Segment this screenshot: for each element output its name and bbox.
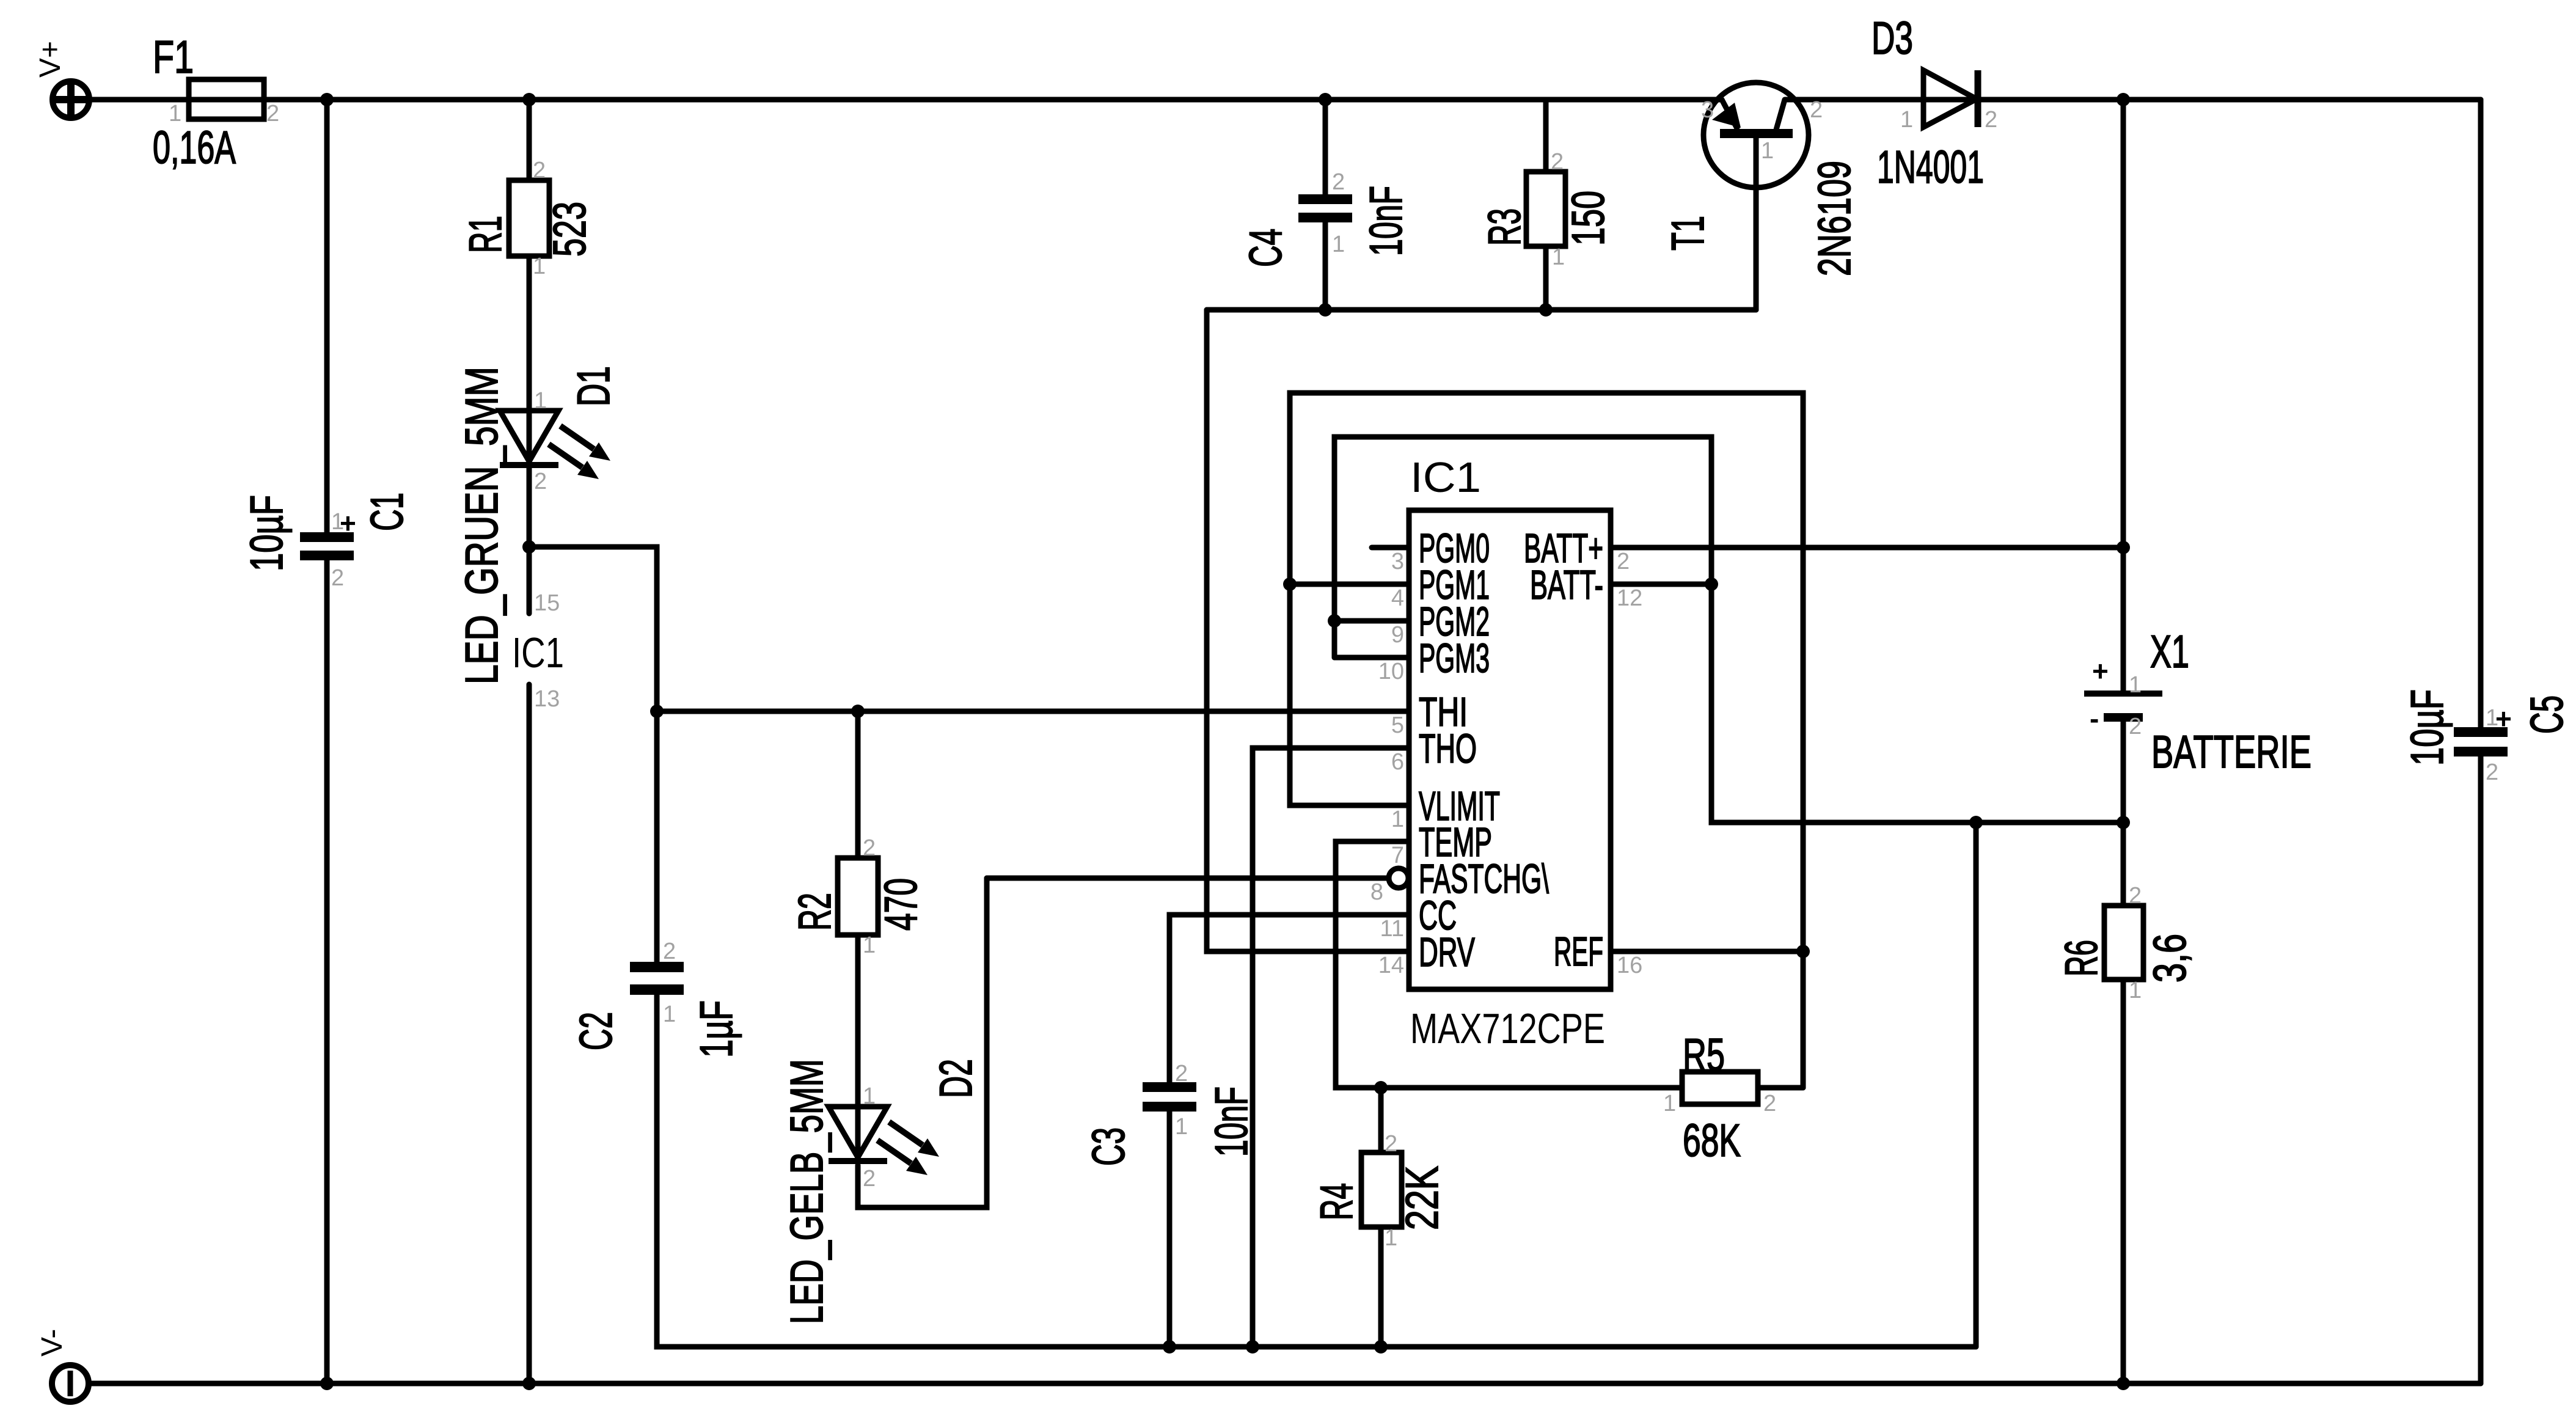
- node TEMP / R4: [1374, 1081, 1388, 1094]
- svg-text:470: 470: [875, 878, 926, 931]
- node BATT+ / battery: [2117, 541, 2130, 554]
- svg-text:PGM3: PGM3: [1419, 636, 1490, 681]
- svg-text:1: 1: [1385, 1225, 1397, 1251]
- node PGM1 / VLIMIT loop: [1283, 577, 1297, 591]
- node bus / THO: [1246, 1340, 1259, 1354]
- wire R2 top: [855, 711, 861, 858]
- svg-text:12: 12: [1617, 585, 1642, 611]
- svg-text:2: 2: [663, 939, 676, 964]
- svg-text:C4: C4: [1240, 229, 1291, 267]
- arrow head: [918, 1138, 939, 1157]
- capacitor plate: [300, 551, 354, 560]
- wire right edge upper: [2478, 100, 2484, 727]
- wire BATT- pin12: [1613, 582, 1711, 587]
- wire D2 cathode to FASTCHG riser: [858, 878, 987, 1207]
- wire battery minus to junction: [2121, 722, 2126, 822]
- symbol circle: [52, 1365, 89, 1402]
- wire PGM2 net: [1334, 618, 1409, 624]
- wire R3 top: [1543, 100, 1549, 172]
- svg-text:IC1: IC1: [1410, 453, 1481, 501]
- node BATT- / loop: [1705, 577, 1718, 591]
- node THI / R2: [851, 705, 865, 718]
- svg-text:523: 523: [544, 202, 595, 257]
- svg-text:1: 1: [169, 101, 181, 126]
- svg-text:2: 2: [1551, 149, 1564, 175]
- resistor R2: [789, 835, 926, 958]
- svg-text:11: 11: [1380, 916, 1404, 942]
- svg-text:3: 3: [1701, 97, 1714, 123]
- symbol circle: [53, 81, 89, 118]
- svg-text:10µF: 10µF: [241, 495, 292, 571]
- fuse F1: [153, 31, 279, 173]
- capacitor plate: [1143, 1082, 1196, 1092]
- svg-text:1: 1: [2129, 978, 2142, 1003]
- arrow head: [1712, 103, 1741, 128]
- node top rail / C1: [320, 93, 334, 106]
- svg-text:1: 1: [1900, 107, 1913, 133]
- node battery minus / R6: [2117, 816, 2130, 829]
- component body outline: [2104, 906, 2143, 980]
- svg-text:2: 2: [1617, 549, 1630, 574]
- node bus / R4: [1374, 1340, 1388, 1354]
- svg-text:1: 1: [1663, 1091, 1676, 1116]
- diode cathode bar: [1975, 70, 1981, 127]
- svg-text:7: 7: [1391, 843, 1404, 868]
- LED triangle: [829, 1107, 887, 1157]
- svg-text:4: 4: [1391, 585, 1404, 611]
- wire VLIMIT big loop: [1290, 393, 1803, 1088]
- collector lead: [1776, 100, 1785, 130]
- svg-text:1: 1: [534, 388, 547, 414]
- arrow shaft: [549, 444, 582, 467]
- wire DRV net riser: [1207, 310, 1409, 951]
- battery negative plate: [2104, 713, 2143, 722]
- capacitor plate: [300, 532, 354, 542]
- node BATT- bus riser: [1969, 816, 1983, 829]
- svg-text:10nF: 10nF: [1206, 1086, 1257, 1157]
- wire C1 branch lower: [324, 560, 330, 1383]
- wire TEMP net: [1336, 841, 1682, 1088]
- svg-text:C3: C3: [1083, 1127, 1134, 1166]
- svg-text:6: 6: [1391, 749, 1404, 775]
- transistor body circle: [1703, 82, 1809, 188]
- arrow shaft: [889, 1122, 923, 1145]
- svg-text:1: 1: [863, 1083, 876, 1109]
- node REF / loop: [1796, 945, 1810, 958]
- node base net / R3: [1539, 303, 1553, 317]
- svg-text:+: +: [2092, 655, 2109, 687]
- svg-text:15: 15: [534, 590, 560, 616]
- node PGM2 / PGM3 loop: [1328, 614, 1341, 628]
- resistor R6: [2055, 883, 2195, 1003]
- supply terminal V-: [36, 1329, 89, 1402]
- component body outline: [509, 180, 549, 256]
- LED D2: [781, 1059, 981, 1324]
- component body outline: [1361, 1152, 1402, 1227]
- wire IC1 pin13 to V- rail: [527, 684, 532, 1383]
- wire T1 base: [1754, 138, 1759, 310]
- svg-text:X1: X1: [2150, 626, 2189, 677]
- wire REF net: [1613, 949, 1803, 954]
- node top rail / battery riser: [2117, 93, 2130, 106]
- svg-text:R4: R4: [1311, 1183, 1362, 1220]
- svg-text:150: 150: [1562, 191, 1614, 246]
- svg-text:2: 2: [2486, 760, 2498, 785]
- svg-text:D1: D1: [568, 366, 619, 406]
- supply terminal V+: [34, 41, 89, 118]
- wire R4 top: [1378, 1088, 1384, 1152]
- capacitor C4: [1240, 169, 1411, 267]
- node THI / C2: [650, 705, 664, 718]
- svg-text:2: 2: [1332, 169, 1345, 195]
- svg-text:LED_GELB_5MM: LED_GELB_5MM: [781, 1059, 832, 1324]
- IC1 MAX712CPE box: [1370, 453, 1642, 1052]
- svg-text:LED_GRUEN_5MM: LED_GRUEN_5MM: [456, 367, 507, 684]
- svg-text:F1: F1: [153, 31, 194, 82]
- wire R2 bottom to D2: [855, 935, 861, 1160]
- wire THO net: [1253, 748, 1409, 1347]
- svg-text:2: 2: [863, 835, 876, 861]
- svg-text:3,6: 3,6: [2144, 934, 2195, 983]
- wire bus right riser: [1974, 822, 1979, 1347]
- svg-text:C5: C5: [2521, 695, 2572, 734]
- svg-text:2: 2: [331, 565, 344, 591]
- capacitor plate: [2454, 727, 2508, 737]
- wire PGM0 stub: [1372, 545, 1409, 551]
- wire right edge lower: [2478, 756, 2484, 1383]
- node V- rail / pin13: [522, 1377, 536, 1390]
- resistor R5: [1663, 1029, 1776, 1166]
- svg-text:2: 2: [1385, 1131, 1397, 1157]
- arrow head: [577, 461, 599, 479]
- svg-text:D2: D2: [930, 1059, 981, 1098]
- wire C4 bottom: [1323, 222, 1328, 310]
- component body outline: [1526, 172, 1565, 246]
- svg-text:10: 10: [1378, 659, 1404, 684]
- wire R4 bottom to bus: [1378, 1227, 1384, 1347]
- resistor R3: [1479, 149, 1614, 270]
- svg-text:1: 1: [1332, 232, 1345, 257]
- svg-text:IC1: IC1: [512, 629, 564, 676]
- svg-text:BATTERIE: BATTERIE: [2151, 726, 2311, 777]
- battery positive plate: [2084, 691, 2162, 697]
- svg-text:1: 1: [863, 932, 876, 958]
- node V- rail / C1: [320, 1377, 334, 1390]
- capacitor C5: [2401, 689, 2572, 785]
- capacitor plate: [630, 984, 684, 995]
- svg-text:2: 2: [1810, 97, 1823, 123]
- svg-text:+: +: [2495, 703, 2512, 734]
- svg-text:10µF: 10µF: [2401, 689, 2453, 766]
- capacitor plate: [1298, 213, 1352, 222]
- wire R1 top: [527, 100, 532, 180]
- wire R3 bottom: [1543, 246, 1549, 310]
- resistor R1: [459, 158, 595, 279]
- wire R6 bottom: [2121, 980, 2126, 1383]
- wire PGM3 loop over IC: [1334, 437, 2123, 822]
- wire THI net: [657, 709, 1409, 714]
- svg-text:1: 1: [1175, 1114, 1188, 1140]
- svg-text:1: 1: [1761, 138, 1774, 164]
- wire CC net to C3: [1169, 915, 1409, 1082]
- svg-text:DRV: DRV: [1419, 929, 1475, 975]
- node bus / C3: [1163, 1340, 1176, 1354]
- svg-text:68K: 68K: [1683, 1115, 1741, 1166]
- svg-text:T1: T1: [1662, 216, 1713, 251]
- svg-text:2: 2: [1763, 1091, 1776, 1116]
- capacitor plate: [630, 962, 684, 972]
- node base net / C4: [1319, 303, 1332, 317]
- svg-text:MAX712CPE: MAX712CPE: [1410, 1005, 1605, 1052]
- capacitor plate: [2454, 747, 2508, 756]
- wire BATT+ pin2: [1613, 545, 2123, 551]
- svg-text:2: 2: [534, 469, 547, 494]
- svg-text:+: +: [340, 507, 356, 539]
- wire R5 right to VLIMIT loop: [1758, 1085, 1803, 1091]
- svg-text:R2: R2: [789, 893, 840, 931]
- svg-text:5: 5: [1391, 712, 1404, 738]
- transistor T1: [1662, 82, 1860, 276]
- diode D3: [1872, 12, 1997, 192]
- svg-text:14: 14: [1378, 953, 1404, 978]
- base bar: [1720, 129, 1793, 138]
- svg-text:1: 1: [2129, 672, 2142, 698]
- arrow shaft: [877, 1140, 911, 1163]
- wire C1 branch upper: [324, 100, 330, 532]
- capacitor C3: [1083, 1061, 1257, 1166]
- svg-text:8: 8: [1370, 879, 1383, 905]
- svg-text:1: 1: [533, 254, 546, 279]
- wire C2 top: [654, 711, 660, 962]
- svg-text:2: 2: [863, 1166, 876, 1192]
- svg-text:0,16A: 0,16A: [153, 122, 236, 173]
- node top rail / C4: [1319, 93, 1332, 106]
- wire bottom V- rail: [89, 1381, 2481, 1387]
- LED D1: [456, 366, 619, 684]
- svg-text:R5: R5: [1683, 1029, 1725, 1080]
- wire top rail right segment: [1785, 97, 2481, 103]
- arrow head: [589, 442, 610, 461]
- wire FASTCHG net: [987, 876, 1388, 881]
- LED cathode bar: [829, 1158, 887, 1164]
- LED cathode bar: [500, 462, 558, 468]
- node V- rail / R6: [2117, 1377, 2130, 1390]
- svg-text:2: 2: [266, 101, 279, 126]
- component body outline: [189, 79, 264, 119]
- emitter lead: [1722, 100, 1738, 130]
- IC1 LED-driver pin stubs: [512, 590, 564, 712]
- capacitor C2: [570, 939, 742, 1058]
- wire battery riser: [2121, 100, 2126, 691]
- svg-text:THO: THO: [1419, 726, 1477, 772]
- svg-text:3: 3: [1391, 549, 1404, 574]
- svg-text:9: 9: [1391, 622, 1404, 648]
- wire C3 bottom to bus: [1167, 1112, 1173, 1347]
- svg-text:2: 2: [1175, 1061, 1188, 1086]
- svg-text:1: 1: [1391, 807, 1404, 832]
- LED triangle: [500, 411, 558, 461]
- component body outline: [838, 858, 878, 935]
- capacitor plate: [1143, 1102, 1196, 1112]
- svg-text:13: 13: [534, 686, 560, 712]
- node D1 cathode tap: [522, 540, 536, 554]
- diode triangle: [1923, 70, 1977, 127]
- svg-text:2: 2: [1985, 107, 1997, 133]
- capacitor C1: [241, 493, 412, 591]
- svg-text:22K: 22K: [1396, 1166, 1447, 1230]
- svg-text:BATT-: BATT-: [1530, 562, 1603, 608]
- svg-text:C1: C1: [361, 493, 412, 531]
- arrow head: [906, 1157, 928, 1175]
- svg-text:2N6109: 2N6109: [1809, 161, 1860, 276]
- capacitor plate: [1298, 194, 1352, 204]
- wire PGM1 net: [1290, 582, 1409, 587]
- svg-text:C2: C2: [570, 1012, 621, 1050]
- wire node D1 to C2 column: [529, 547, 657, 711]
- svg-text:16: 16: [1617, 953, 1642, 978]
- wire C4 top: [1323, 100, 1328, 194]
- svg-text:V-: V-: [36, 1329, 68, 1357]
- wire D1 cathode to pin15 stub: [527, 468, 532, 614]
- component body outline: [1409, 510, 1611, 989]
- resistor R4: [1311, 1131, 1447, 1251]
- battery X1: [2084, 626, 2311, 777]
- component body outline: [1682, 1072, 1758, 1104]
- svg-text:10nF: 10nF: [1360, 186, 1411, 256]
- svg-text:1N4001: 1N4001: [1877, 141, 1984, 192]
- svg-text:R1: R1: [459, 216, 511, 253]
- wire top rail V+ left segment: [90, 97, 1722, 103]
- wire base net horizontal: [1207, 307, 1756, 313]
- svg-text:-: -: [2090, 703, 2099, 734]
- wire R1 bottom to D1: [527, 256, 532, 463]
- node top rail / R1: [522, 93, 536, 106]
- wire PGM3 net: [1334, 655, 1409, 661]
- svg-text:R3: R3: [1479, 208, 1530, 246]
- svg-text:R6: R6: [2055, 940, 2107, 976]
- svg-text:2: 2: [533, 158, 546, 183]
- svg-text:1: 1: [663, 1002, 676, 1027]
- svg-text:2: 2: [2129, 883, 2142, 909]
- wire R6 top: [2121, 822, 2126, 906]
- wire C2 bottom to bus: [657, 995, 1976, 1347]
- svg-text:1µF: 1µF: [690, 1000, 742, 1058]
- svg-text:REF: REF: [1554, 929, 1603, 975]
- svg-text:V+: V+: [34, 41, 67, 78]
- plus sign: [55, 84, 87, 115]
- inversion bubble pin 8: [1389, 868, 1408, 888]
- minus bar: [68, 1371, 73, 1396]
- svg-text:D3: D3: [1872, 12, 1913, 64]
- arrow shaft: [560, 426, 594, 449]
- svg-text:2: 2: [2129, 714, 2142, 739]
- svg-text:1: 1: [1552, 244, 1565, 270]
